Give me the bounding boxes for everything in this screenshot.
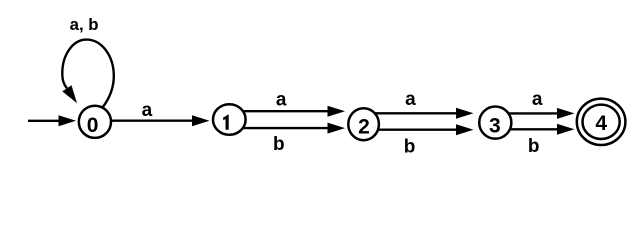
svg-text:a: a	[142, 100, 153, 121]
svg-text:b: b	[528, 136, 540, 157]
svg-text:4: 4	[595, 112, 607, 135]
svg-text:3: 3	[489, 115, 501, 138]
svg-text:2: 2	[358, 116, 370, 139]
svg-text:b: b	[404, 136, 416, 157]
svg-text:b: b	[273, 134, 285, 155]
svg-text:a, b: a, b	[70, 15, 99, 34]
svg-text:0: 0	[87, 114, 99, 137]
svg-text:a: a	[405, 89, 416, 110]
svg-text:a: a	[532, 89, 543, 110]
svg-text:a: a	[276, 90, 287, 111]
